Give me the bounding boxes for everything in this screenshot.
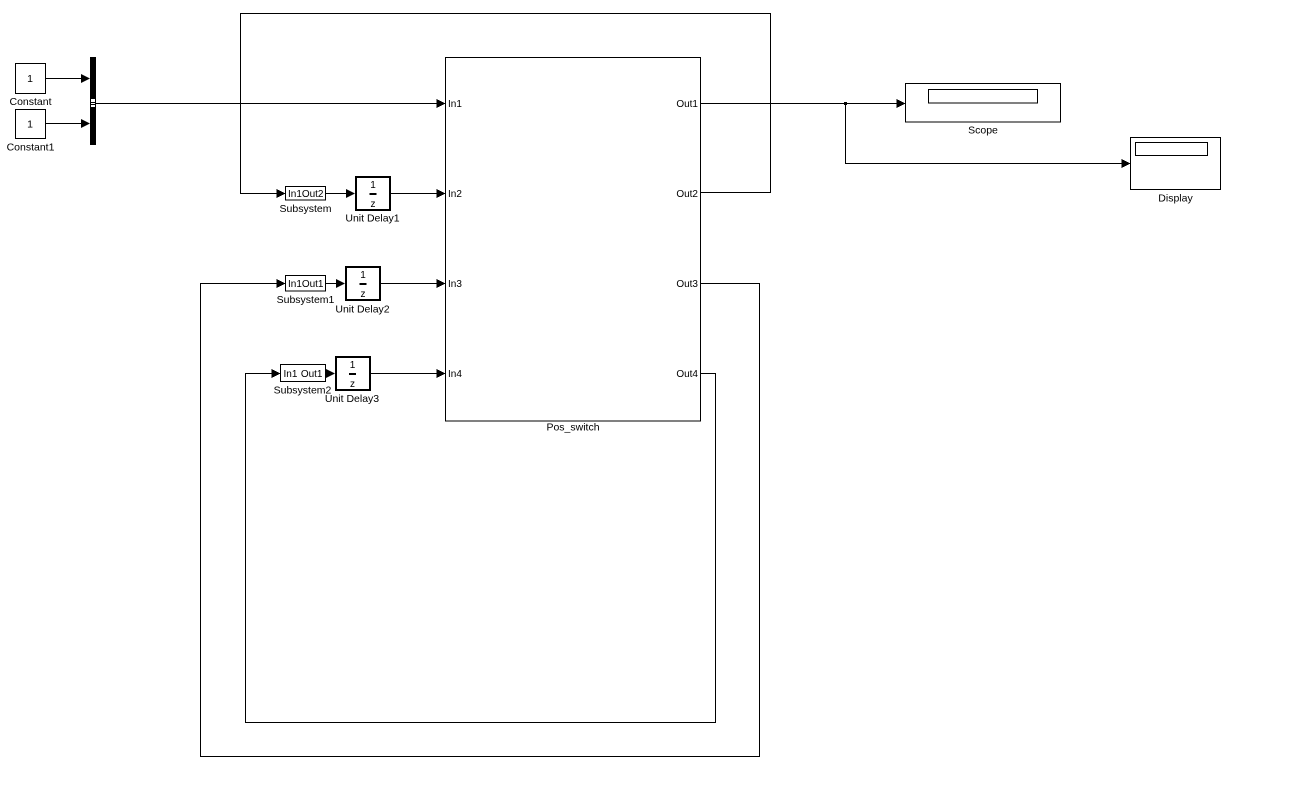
- svg-text:Scope: Scope: [968, 125, 998, 137]
- wire Unit Delay3 to In4: [371, 369, 446, 378]
- svg-text:Out4: Out4: [676, 369, 698, 380]
- scope block Scope: [906, 84, 1061, 123]
- wire Unit Delay1 to In2: [391, 189, 446, 198]
- wire Unit Delay2 to In3: [381, 279, 446, 288]
- svg-text:Out1: Out1: [676, 99, 698, 110]
- svg-text:In1: In1: [448, 99, 462, 110]
- svg-text:1: 1: [360, 270, 366, 281]
- svg-text:Out2: Out2: [302, 189, 324, 200]
- svg-text:Unit Delay1: Unit Delay1: [345, 213, 399, 225]
- svg-text:Subsystem1: Subsystem1: [277, 294, 335, 306]
- svg-text:In4: In4: [448, 369, 462, 380]
- wire Constant to Mux: [46, 74, 90, 83]
- subsystem block Subsystem: [286, 187, 326, 201]
- wire Constant1 to Mux: [46, 119, 90, 128]
- wire Subsystem2 to Unit Delay3: [326, 369, 336, 378]
- svg-text:Subsystem2: Subsystem2: [274, 385, 332, 397]
- wire branch to Display: [846, 104, 1131, 169]
- svg-text:Out2: Out2: [676, 189, 698, 200]
- svg-text:Constant1: Constant1: [7, 142, 55, 154]
- svg-text:Unit Delay3: Unit Delay3: [325, 393, 379, 405]
- unit delay block Unit Delay3: [336, 357, 370, 390]
- wire Out2 feedback loop to Subsystem: [241, 14, 771, 199]
- svg-text:Constant: Constant: [9, 96, 51, 108]
- wire Out1 to Scope: [701, 99, 906, 108]
- constant block Constant: [16, 64, 46, 94]
- svg-text:In1: In1: [288, 279, 302, 290]
- svg-text:z: z: [350, 379, 355, 390]
- subsystem block Pos_switch: [446, 58, 701, 422]
- svg-text:1: 1: [27, 119, 33, 131]
- display block Display: [1131, 138, 1221, 190]
- svg-text:In1: In1: [284, 369, 298, 380]
- subsystem block Subsystem1: [286, 276, 326, 292]
- constant block Constant1: [16, 110, 46, 139]
- svg-text:Out1: Out1: [302, 279, 324, 290]
- unit delay block Unit Delay2: [346, 267, 380, 300]
- unit delay block Unit Delay1: [356, 177, 390, 210]
- wire Subsystem1 to Unit Delay2: [326, 279, 346, 288]
- junction dot on Out1 wire: [844, 102, 847, 105]
- wire Out4 feedback loop to Subsystem2: [246, 369, 716, 723]
- svg-text:1: 1: [370, 180, 376, 191]
- svg-text:In3: In3: [448, 279, 462, 290]
- svg-text:1: 1: [350, 360, 356, 371]
- svg-text:Unit Delay2: Unit Delay2: [335, 304, 389, 316]
- mux Mux: [90, 57, 96, 145]
- svg-text:z: z: [371, 199, 376, 210]
- svg-text:Subsystem: Subsystem: [280, 203, 332, 215]
- svg-text:z: z: [361, 289, 366, 300]
- subsystem block Subsystem2: [281, 365, 326, 382]
- svg-text:1: 1: [27, 73, 33, 85]
- svg-text:In2: In2: [448, 189, 462, 200]
- wire Subsystem to Unit Delay1: [326, 189, 356, 198]
- svg-text:Out3: Out3: [676, 279, 698, 290]
- svg-text:Out1: Out1: [301, 369, 323, 380]
- svg-text:In1: In1: [288, 189, 302, 200]
- wire Out3 feedback loop to Subsystem1: [201, 279, 760, 757]
- wire Mux to In1: [96, 99, 446, 108]
- svg-text:Pos_switch: Pos_switch: [546, 422, 599, 434]
- svg-text:Display: Display: [1158, 193, 1193, 205]
